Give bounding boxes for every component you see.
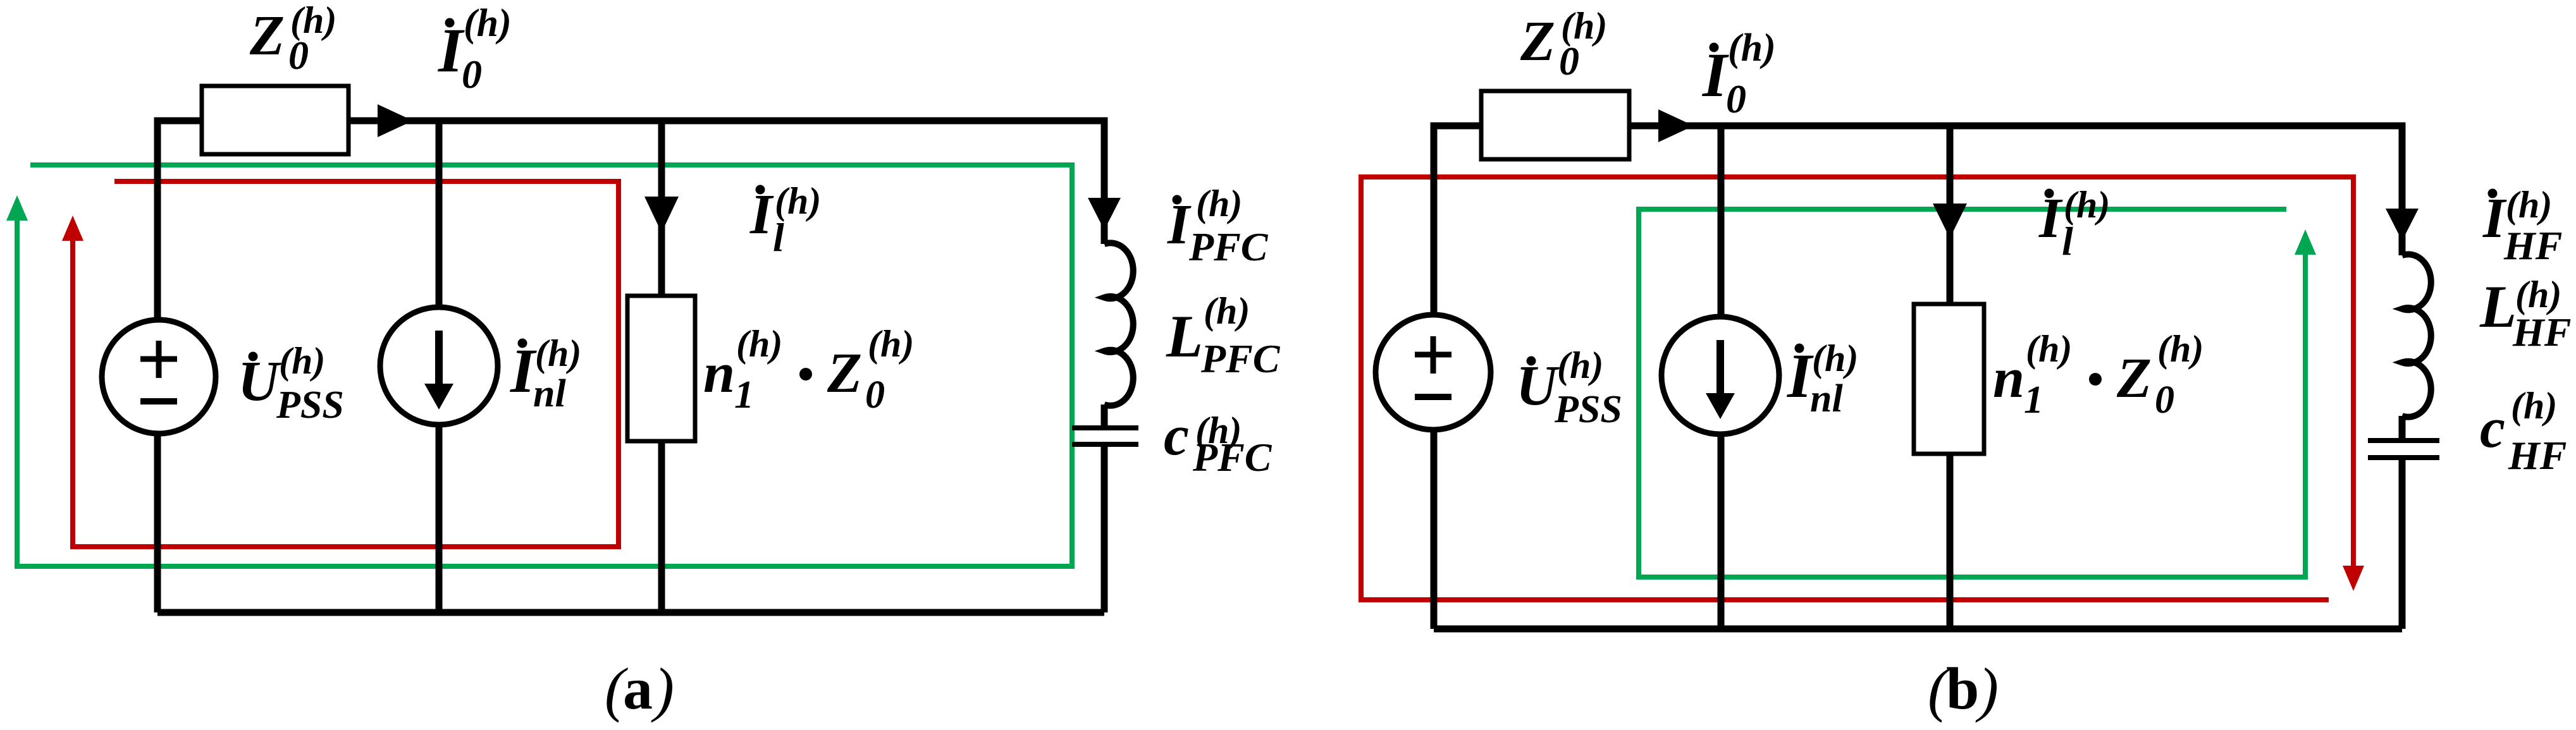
red loop arrow (b) (2343, 566, 2364, 591)
inductor L (b) (2402, 254, 2431, 417)
svg-text:(h): (h) (2157, 328, 2203, 370)
wire right branch upper (b) (2399, 123, 2406, 256)
label U_PSS (b) (1516, 344, 1622, 431)
svg-text:Z: Z (827, 342, 862, 405)
wire capacitor-bottom (a) (1101, 444, 1108, 612)
label Z0 (b) (1520, 5, 1607, 83)
wire left branch (b) (1431, 123, 1438, 630)
label L_HF (b) (2479, 273, 2571, 355)
svg-text:L: L (2479, 273, 2517, 340)
svg-text:nl: nl (1810, 377, 1843, 420)
caption (b) (1928, 655, 1999, 723)
arrow right branch (a) (1088, 198, 1121, 230)
red loop arrow (a) (62, 216, 83, 241)
svg-text:(h): (h) (1196, 183, 1242, 224)
red loop (b) (1361, 177, 2353, 600)
svg-text:n: n (1993, 347, 2024, 410)
voltage source U_PSS (a) (102, 320, 216, 434)
arrow I_l node-3 (a) (644, 197, 679, 233)
svg-text:I: I (438, 15, 465, 85)
svg-text:(h): (h) (1812, 338, 1858, 379)
svg-text:HF: HF (2512, 310, 2571, 355)
svg-text:1: 1 (2024, 379, 2043, 422)
wire top net (b) (1434, 123, 2402, 130)
wire bottom net (b) (1434, 626, 2402, 633)
wire bottom net (a) (157, 609, 1104, 616)
svg-text:0: 0 (1559, 39, 1579, 83)
label n1*Z0 (b) (1993, 328, 2203, 422)
svg-text:(h): (h) (1204, 290, 1250, 332)
impedance n1*Z0 (b) (1914, 304, 1984, 454)
svg-text:(h): (h) (736, 323, 782, 365)
label I_PFC (a) (1167, 183, 1269, 269)
svg-text:L: L (1166, 303, 1203, 370)
wire inductor-capacitor (a) (1101, 405, 1108, 428)
label I_nl (a) (510, 332, 581, 415)
svg-text:(h): (h) (1557, 344, 1603, 386)
voltage source U_PSS (b) (1376, 315, 1491, 430)
svg-text:c: c (1164, 405, 1189, 467)
svg-text:(h): (h) (535, 332, 581, 374)
svg-text:a: a (623, 656, 653, 722)
svg-text:HF: HF (2503, 223, 2562, 268)
svg-text:l: l (2062, 219, 2073, 264)
svg-text:0: 0 (2155, 379, 2174, 422)
svg-text:U: U (238, 350, 281, 413)
wire inductor-capacitor (b) (2399, 416, 2406, 441)
capacitor C (a) (1072, 425, 1138, 430)
svg-text:Z: Z (249, 4, 285, 67)
current source I_nl (a) (380, 307, 498, 425)
wire top net (a) (157, 118, 1104, 125)
red loop (a) (73, 181, 619, 547)
svg-text:I: I (1702, 40, 1729, 110)
svg-text:I: I (1167, 193, 1192, 256)
svg-text:n: n (703, 342, 735, 405)
svg-text:0: 0 (288, 33, 309, 78)
svg-text:U: U (1516, 355, 1560, 417)
svg-text:(h): (h) (2026, 328, 2072, 370)
label L_PFC (a) (1166, 290, 1281, 381)
label I_nl (b) (1787, 338, 1858, 420)
svg-text:I: I (2038, 187, 2063, 250)
svg-text:PFC: PFC (1200, 336, 1281, 381)
svg-text:PFC: PFC (1188, 224, 1269, 269)
label I0 (b) (1702, 27, 1776, 121)
wire capacitor-bottom (b) (2399, 458, 2406, 629)
impedance n1*Z0 (a) (627, 296, 695, 441)
inductor L (a) (1104, 243, 1133, 405)
label I0 (a) (438, 2, 512, 97)
svg-text:1: 1 (734, 374, 754, 417)
svg-text:l: l (773, 215, 784, 260)
wire right branch upper (a) (1101, 118, 1108, 245)
green loop arrow (b) (2295, 229, 2316, 255)
wire node-3 branch (a) (658, 121, 665, 612)
capacitor C (b) (2368, 438, 2439, 443)
caption (a) (605, 655, 674, 723)
green loop (b) (1639, 209, 2305, 577)
wire node-2 branch (b) (1718, 126, 1725, 629)
arrow I_l node-3 (b) (1933, 204, 1967, 238)
svg-text:nl: nl (533, 372, 566, 415)
current source I_nl (b) (1661, 317, 1779, 434)
svg-text:(h): (h) (279, 340, 325, 382)
svg-text:): ) (651, 655, 674, 723)
label n1*Z0 (a) (703, 323, 914, 417)
resistor Z0 (b) (1481, 91, 1629, 159)
svg-text:(h): (h) (2506, 184, 2552, 226)
resistor Z0 (a) (202, 86, 348, 154)
svg-text:(h): (h) (464, 2, 512, 45)
label c_PFC (a) (1164, 405, 1273, 480)
label Il (b) (2038, 184, 2110, 264)
svg-text:0: 0 (462, 52, 482, 97)
wire left branch (a) (154, 118, 161, 613)
svg-text:(h): (h) (2511, 385, 2557, 427)
label Il (a) (749, 180, 821, 260)
svg-text:PSS: PSS (276, 384, 344, 427)
svg-text:PSS: PSS (1554, 388, 1622, 431)
svg-text:(h): (h) (1728, 27, 1776, 70)
svg-text:Z: Z (1520, 10, 1555, 73)
wire node-2 branch (a) (436, 121, 443, 612)
svg-text:b: b (1946, 656, 1979, 722)
label I_HF (b) (2482, 184, 2562, 268)
svg-text:HF: HF (2508, 433, 2567, 478)
svg-text:Z: Z (2116, 347, 2152, 410)
green loop (a) (17, 165, 1072, 566)
current arrow I0 (a) (378, 104, 413, 137)
svg-text:): ) (1975, 655, 1999, 723)
svg-text:I: I (749, 183, 774, 246)
svg-text:0: 0 (865, 374, 885, 417)
svg-text:0: 0 (1726, 76, 1746, 121)
svg-text:PFC: PFC (1192, 435, 1273, 480)
svg-text:c: c (2480, 397, 2505, 459)
label U_PSS (a) (238, 340, 344, 427)
green loop arrow (a) (6, 195, 28, 221)
svg-text:(h): (h) (868, 323, 914, 365)
arrow right branch (b) (2386, 209, 2419, 241)
label c_HF (b) (2480, 385, 2567, 478)
current arrow I0 (b) (1658, 109, 1694, 142)
wire node-3 branch (b) (1947, 126, 1954, 629)
label Z0 (a) (249, 0, 336, 78)
